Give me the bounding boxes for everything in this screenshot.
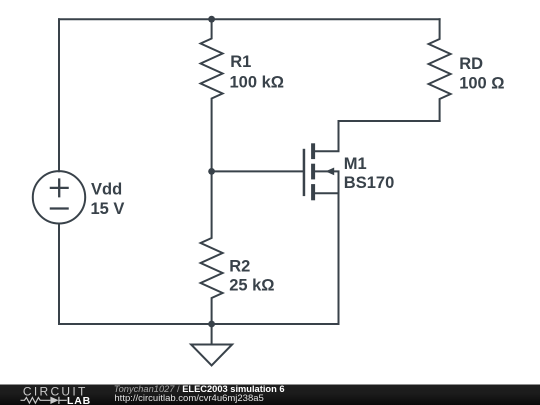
footer url line 2 bbox=[114, 393, 263, 404]
svg-text:100 kΩ: 100 kΩ bbox=[230, 74, 285, 92]
logo LAB text bbox=[67, 395, 91, 405]
svg-text:R1: R1 bbox=[230, 53, 251, 71]
wire left rail upper bbox=[58, 19, 60, 171]
svg-text:RD: RD bbox=[459, 55, 483, 73]
svg-text:Vdd: Vdd bbox=[91, 180, 122, 198]
wire top rail bbox=[59, 18, 440, 20]
footer bar bbox=[0, 385, 540, 405]
resistor R1 bbox=[201, 19, 223, 171]
node gate junction bbox=[208, 168, 215, 175]
wire drain vertical bbox=[315, 121, 339, 151]
transistor M1 gate line bbox=[303, 149, 306, 196]
ground bbox=[191, 324, 232, 365]
label Vdd bbox=[91, 180, 125, 218]
transistor M1 channel bars bbox=[311, 143, 315, 200]
svg-text:LAB: LAB bbox=[67, 395, 91, 405]
wire drain horizontal bbox=[339, 120, 440, 122]
resistor RD bbox=[429, 19, 451, 121]
wire left rail lower bbox=[58, 224, 60, 325]
wire bottom rail bbox=[59, 323, 339, 325]
svg-text:R2: R2 bbox=[229, 258, 250, 276]
footer credit line 1 bbox=[114, 384, 285, 394]
wire source vertical bbox=[315, 193, 339, 324]
label R1 bbox=[230, 53, 285, 92]
svg-text:25 kΩ: 25 kΩ bbox=[229, 277, 274, 295]
transistor M1 body arrow bbox=[326, 168, 335, 176]
resistor R2 bbox=[201, 171, 223, 324]
svg-text:M1: M1 bbox=[344, 155, 367, 173]
svg-text:BS170: BS170 bbox=[344, 174, 394, 192]
logo CIRCUIT text bbox=[23, 385, 88, 399]
voltage source Vdd V1 bbox=[33, 171, 85, 223]
logo schematic line resistor and diode bbox=[21, 397, 67, 404]
wire gate lead bbox=[212, 170, 304, 172]
svg-text:http://circuitlab.com/cvr4u6mj: http://circuitlab.com/cvr4u6mj238a5 bbox=[114, 393, 263, 404]
svg-text:15 V: 15 V bbox=[91, 200, 125, 218]
node ground junction bbox=[208, 321, 215, 328]
label M1 bbox=[344, 155, 394, 192]
label RD bbox=[459, 55, 504, 92]
node top junction bbox=[208, 16, 215, 23]
wire body lead bbox=[315, 171, 339, 193]
svg-text:100 Ω: 100 Ω bbox=[459, 74, 504, 92]
label R2 bbox=[229, 258, 274, 295]
